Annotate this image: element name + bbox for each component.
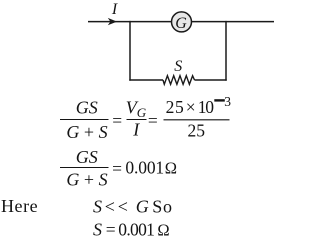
svg-text:S: S bbox=[93, 219, 102, 239]
galvanometer G (circle) bbox=[172, 12, 192, 32]
svg-text:<: < bbox=[118, 196, 128, 216]
fraction bar bbox=[60, 167, 109, 169]
resistor S (zigzag) bbox=[163, 76, 195, 85]
svg-text:G: G bbox=[175, 15, 187, 32]
svg-text:I: I bbox=[111, 1, 118, 18]
svg-text:<: < bbox=[105, 196, 115, 216]
current arrow head bbox=[108, 18, 117, 25]
svg-text:3: 3 bbox=[224, 94, 231, 109]
svg-text:GS: GS bbox=[76, 147, 98, 167]
superscript minus (bold dash) bbox=[214, 99, 225, 101]
svg-text:×: × bbox=[186, 97, 196, 117]
svg-text:10: 10 bbox=[198, 97, 215, 117]
svg-text:=: = bbox=[106, 219, 116, 239]
svg-text:=: = bbox=[112, 158, 122, 178]
svg-text:Here: Here bbox=[1, 196, 38, 216]
svg-text:G + S: G + S bbox=[66, 170, 107, 190]
svg-text:S: S bbox=[174, 58, 182, 75]
svg-text:25: 25 bbox=[166, 97, 185, 117]
svg-text:G + S: G + S bbox=[66, 122, 107, 142]
fraction bar 3 bbox=[164, 119, 230, 121]
svg-text:S: S bbox=[93, 196, 102, 216]
wire left vertical bbox=[129, 21, 131, 81]
svg-text:0.001: 0.001 bbox=[118, 219, 154, 239]
svg-text:I: I bbox=[132, 120, 140, 140]
svg-text:=: = bbox=[112, 110, 122, 130]
wire top-left lead with arrow bbox=[88, 21, 172, 23]
wire right vertical bbox=[225, 21, 227, 81]
svg-text:G: G bbox=[136, 196, 149, 216]
svg-text:Ω: Ω bbox=[165, 158, 177, 177]
svg-text:25: 25 bbox=[187, 120, 205, 140]
svg-text:Ω: Ω bbox=[157, 220, 169, 239]
fraction bar 1 bbox=[60, 119, 109, 121]
wire bottom-right bbox=[195, 79, 227, 81]
wire bottom-left bbox=[129, 79, 163, 81]
svg-text:So: So bbox=[152, 196, 173, 216]
wire top-right bbox=[192, 21, 275, 23]
fraction bar 2 bbox=[127, 119, 147, 121]
svg-text:=: = bbox=[148, 110, 158, 130]
svg-text:0.001: 0.001 bbox=[125, 157, 164, 177]
svg-text:GS: GS bbox=[76, 97, 98, 117]
svg-text:VG: VG bbox=[126, 98, 147, 120]
